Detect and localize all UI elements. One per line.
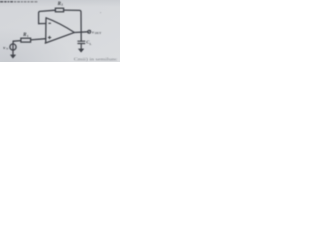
- ground (below CL): [79, 49, 84, 52]
- wire: output: [74, 31, 87, 34]
- svg-text:L: L: [90, 42, 92, 46]
- resistor R2: [55, 8, 63, 12]
- capacitor CL: [78, 41, 85, 51]
- wire: R1 to op-amp: [31, 39, 46, 40]
- output terminal: [88, 30, 91, 33]
- wire: inverting input lead: [39, 23, 46, 25]
- op-amp plus sign: [48, 36, 51, 39]
- wire: feedback top right segment: [64, 10, 82, 41]
- wire: inverting node vertical + top-left feedback segment: [39, 10, 56, 24]
- output terminal slash: [88, 30, 91, 33]
- svg-text:Cmii) in semilunc: Cmii) in semilunc: [74, 57, 118, 62]
- node: feedback-output junction: [80, 31, 82, 33]
- speck: [100, 12, 101, 13]
- svg-text:OUT: OUT: [95, 31, 102, 35]
- cut-off text row at top edge: [0, 1, 37, 3]
- ground (below source): [11, 55, 16, 58]
- source VS: [10, 44, 16, 50]
- wire: source lead through symbol: [12, 41, 14, 57]
- op-amp minus sign: [48, 22, 51, 24]
- resistor R1: [21, 38, 31, 42]
- op-amp U1: [45, 18, 74, 43]
- wire: source to R1: [13, 40, 21, 43]
